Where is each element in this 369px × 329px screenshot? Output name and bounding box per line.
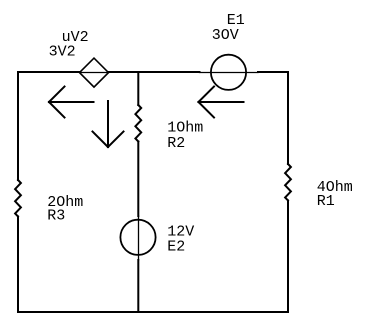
svg-text:R1: R1 [317,193,335,210]
svg-text:R3: R3 [47,208,65,225]
svg-text:R2: R2 [167,135,185,152]
svg-text:E2: E2 [167,239,185,256]
svg-text:3OV: 3OV [212,27,239,44]
svg-text:3V2: 3V2 [49,44,76,61]
